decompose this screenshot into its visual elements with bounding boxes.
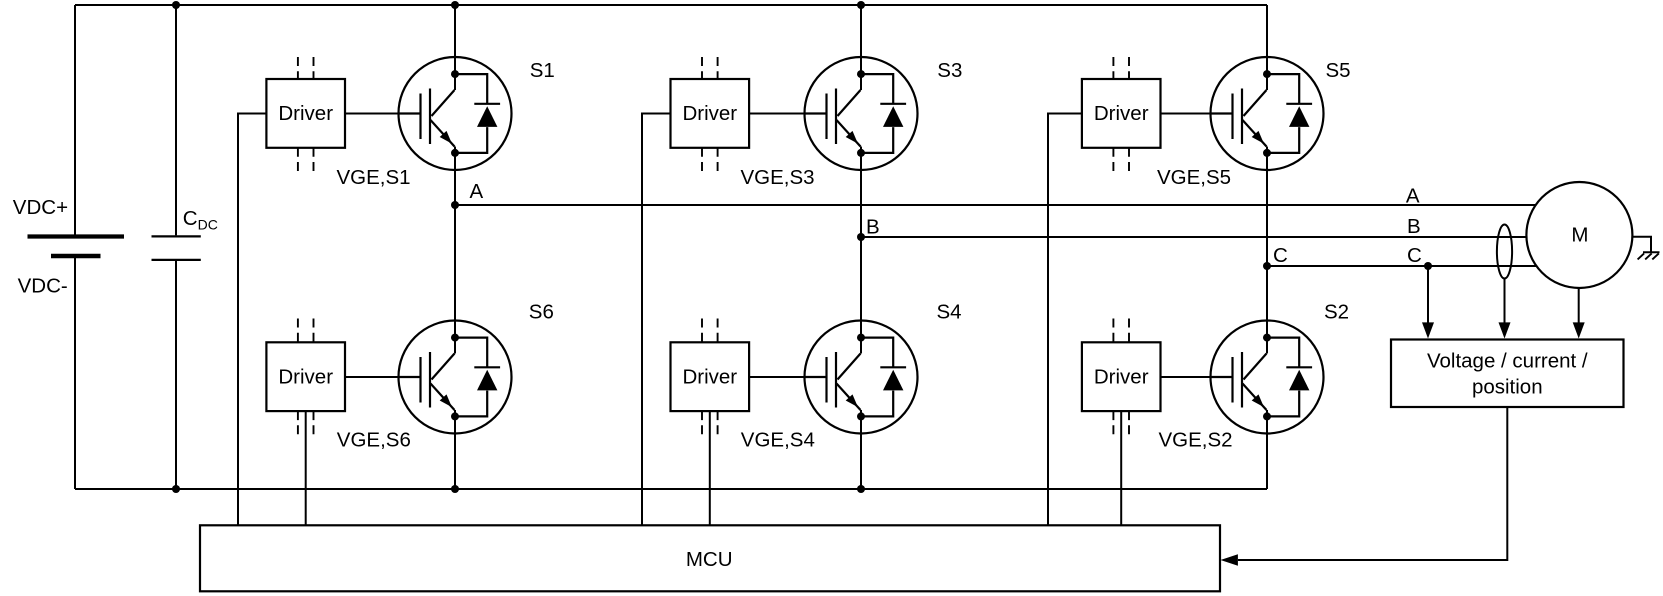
motor M circle [1526, 182, 1632, 288]
svg-text:Driver: Driver [682, 366, 737, 389]
diode antiparallel of S6 [455, 338, 487, 368]
transistor S6 IGBT symbol [399, 321, 512, 434]
junction S2 emitter [1263, 412, 1271, 420]
capacitor CDC top lead wire [175, 5, 177, 235]
wire driver S2 output to gate [1161, 376, 1211, 378]
svg-text:DC: DC [198, 216, 218, 232]
diode antiparallel of S2 [1267, 338, 1299, 368]
MCU box [200, 525, 1220, 591]
wire MCU to driver S2 input [1120, 411, 1122, 525]
isolated supply dashes below driver S3 [701, 148, 703, 176]
svg-text:B: B [866, 215, 880, 238]
transistor S1 IGBT symbol [399, 57, 512, 170]
battery VDC negative lead wire [74, 258, 76, 489]
junction S5 emitter [1263, 149, 1271, 157]
wire driver S1 output to gate [345, 113, 399, 115]
junction S2 collector [1263, 334, 1271, 342]
wire motor to chassis ground [1632, 237, 1651, 253]
isolated supply dashes below driver S6 [297, 411, 299, 439]
wire MCU to driver S3 input [642, 114, 671, 526]
driver box of S5 [1082, 79, 1161, 148]
wire C sense line with arrow [1427, 266, 1429, 323]
svg-text:MCU: MCU [686, 548, 733, 571]
wire bottom DC- bus [75, 488, 1267, 490]
transistor S3 IGBT symbol [805, 57, 918, 170]
battery VDC plates [28, 234, 125, 238]
wire position sense line with arrow [1578, 288, 1580, 323]
wire MCU to driver S4 input [709, 411, 711, 525]
wire driver S3 output to gate [749, 113, 804, 115]
transistor S4 IGBT symbol [805, 321, 918, 434]
svg-text:VGE,S4: VGE,S4 [741, 428, 815, 451]
svg-text:S6: S6 [529, 300, 554, 323]
svg-text:VDC-: VDC- [18, 275, 68, 298]
battery VDC positive lead wire [74, 5, 76, 235]
isolated supply dashes above driver S3 [701, 57, 703, 79]
wire MCU to driver S5 input [1048, 114, 1082, 526]
driver box of S4 [671, 342, 750, 411]
junction S3 collector [857, 70, 865, 78]
wire leg S5 emitter to S2 collector [1266, 147, 1268, 354]
junction S1 emitter [451, 149, 459, 157]
wire leg S1 emitter to S6 collector [454, 147, 456, 354]
wire driver S4 output to gate [749, 376, 804, 378]
isolated supply dashes above driver S4 [701, 319, 703, 343]
transistor S5 IGBT symbol [1211, 57, 1324, 170]
wire leg S4 emitter to bottom bus [860, 410, 862, 489]
junction S6 collector [451, 334, 459, 342]
svg-text:Driver: Driver [278, 102, 333, 125]
chassis ground symbol [1643, 251, 1660, 253]
wire top DC+ bus [75, 4, 1267, 6]
isolated supply dashes below driver S1 [297, 148, 299, 176]
junction S3 emitter [857, 149, 865, 157]
sensing box voltage current position [1391, 340, 1624, 408]
svg-text:C: C [1273, 244, 1288, 267]
junction leg S1 top bus [451, 1, 459, 9]
isolated supply dashes above driver S5 [1112, 57, 1114, 79]
diode antiparallel of S5 [1267, 74, 1299, 104]
junction S5 collector [1263, 70, 1271, 78]
wire phase C line [1267, 265, 1537, 267]
junction CDC bottom bus [172, 485, 180, 493]
diode antiparallel of S3 [861, 74, 893, 104]
isolated supply dashes above driver S2 [1112, 319, 1114, 343]
wire phase A line [455, 204, 1536, 206]
wire MCU to driver S6 input [305, 411, 307, 525]
wire driver S6 output to gate [345, 376, 399, 378]
isolated supply dashes above driver S1 [297, 57, 299, 79]
isolated supply dashes below driver S2 [1112, 411, 1114, 439]
junction S1 collector [451, 70, 459, 78]
svg-text:VGE,S3: VGE,S3 [741, 166, 815, 189]
wire leg S5 collector to top bus [1266, 5, 1268, 90]
svg-text:VGE,S1: VGE,S1 [337, 166, 411, 189]
wire current sense line with arrow [1504, 279, 1506, 324]
junction phase C sense tap [1424, 262, 1432, 270]
junction CDC top bus [172, 1, 180, 9]
wire leg S6 emitter to bottom bus [454, 410, 456, 489]
svg-text:C: C [1407, 244, 1422, 267]
svg-text:Driver: Driver [278, 366, 333, 389]
isolated supply dashes below driver S5 [1112, 148, 1114, 176]
node A junction [451, 201, 459, 209]
svg-text:B: B [1407, 215, 1421, 238]
capacitor CDC plates [152, 235, 201, 237]
diode antiparallel of S1 [455, 74, 487, 104]
svg-text:S5: S5 [1326, 59, 1351, 82]
diode antiparallel of S4 [861, 338, 893, 368]
svg-text:M: M [1571, 224, 1588, 247]
isolated supply dashes above driver S6 [297, 319, 299, 343]
wire leg S1 collector to top bus [454, 5, 456, 90]
svg-text:Voltage / current /: Voltage / current / [1427, 350, 1588, 373]
svg-text:S3: S3 [937, 59, 962, 82]
junction S4 emitter [857, 412, 865, 420]
current sensor ellipse [1497, 225, 1512, 279]
wire feedback sensing box to MCU with arrow [1238, 407, 1507, 560]
node C junction [1263, 262, 1271, 270]
svg-text:A: A [470, 180, 484, 203]
svg-text:position: position [1472, 376, 1543, 399]
wire MCU to driver S1 input [238, 114, 266, 526]
driver box of S1 [266, 79, 345, 148]
node B junction [857, 233, 865, 241]
junction S4 collector [857, 334, 865, 342]
svg-text:VGE,S2: VGE,S2 [1159, 428, 1233, 451]
junction leg S6 bottom bus [451, 485, 459, 493]
transistor S2 IGBT symbol [1211, 321, 1324, 434]
svg-text:VGE,S5: VGE,S5 [1157, 166, 1231, 189]
svg-text:VDC+: VDC+ [13, 196, 68, 219]
wire phase B line [861, 236, 1527, 238]
wire leg S2 emitter to bottom bus [1266, 410, 1268, 489]
svg-text:S4: S4 [937, 300, 962, 323]
svg-text:Driver: Driver [1094, 366, 1149, 389]
wire leg S3 emitter to S4 collector [860, 147, 862, 354]
junction leg S3 top bus [857, 1, 865, 9]
svg-text:S2: S2 [1324, 300, 1349, 323]
driver box of S6 [266, 342, 345, 411]
junction S6 emitter [451, 412, 459, 420]
isolated supply dashes below driver S4 [701, 411, 703, 439]
junction leg S4 bottom bus [857, 485, 865, 493]
svg-text:VGE,S6: VGE,S6 [337, 428, 411, 451]
svg-text:C: C [183, 207, 198, 230]
svg-text:A: A [1406, 185, 1420, 208]
svg-text:S1: S1 [530, 59, 555, 82]
capacitor CDC bottom lead wire [175, 261, 177, 489]
wire driver S5 output to gate [1161, 113, 1211, 115]
svg-text:Driver: Driver [1094, 102, 1149, 125]
wire leg S3 collector to top bus [860, 5, 862, 90]
driver box of S3 [671, 79, 750, 148]
svg-text:Driver: Driver [682, 102, 737, 125]
driver box of S2 [1082, 342, 1161, 411]
